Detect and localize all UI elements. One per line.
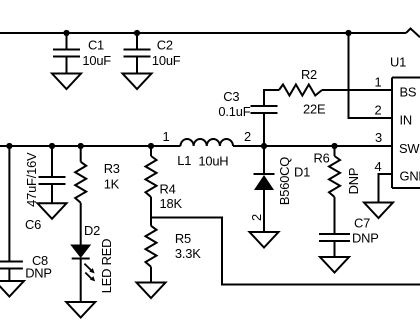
wire R2 to C3 xyxy=(264,90,279,106)
resistor R6 xyxy=(314,146,362,234)
svg-text:2: 2 xyxy=(375,103,382,118)
svg-text:2: 2 xyxy=(244,129,251,144)
svg-text:R3: R3 xyxy=(104,161,120,176)
svg-text:1K: 1K xyxy=(104,177,120,192)
svg-text:4: 4 xyxy=(375,159,382,174)
svg-text:10uF: 10uF xyxy=(82,53,111,68)
wire R3 to D2 xyxy=(80,203,82,245)
svg-text:D1: D1 xyxy=(294,165,310,180)
wire BS pin 1 to R2 xyxy=(322,89,392,91)
svg-text:IN: IN xyxy=(400,113,413,128)
capacitor C2 xyxy=(124,33,181,74)
svg-text:3.3K: 3.3K xyxy=(175,246,201,261)
svg-text:D2: D2 xyxy=(84,223,100,238)
resistor R4 xyxy=(146,146,183,218)
svg-text:1: 1 xyxy=(375,75,382,90)
svg-text:GND: GND xyxy=(400,169,420,184)
svg-text:U1: U1 xyxy=(390,55,406,70)
svg-text:DNP: DNP xyxy=(352,231,379,246)
ground under C8 xyxy=(0,281,24,297)
resistor R2 xyxy=(279,67,326,117)
ground under C6 xyxy=(38,203,67,219)
svg-text:R4: R4 xyxy=(160,181,176,196)
node junction VIN/C1 xyxy=(63,30,69,36)
ground under C2 xyxy=(123,74,152,90)
svg-text:BS: BS xyxy=(400,85,417,100)
svg-text:18K: 18K xyxy=(160,196,183,211)
wire VIN to IN pin 2 xyxy=(349,33,393,118)
capacitor C1 xyxy=(53,33,111,74)
capacitor C8 xyxy=(0,146,52,281)
svg-text:10uH: 10uH xyxy=(198,153,228,168)
svg-text:DNP: DNP xyxy=(25,266,52,281)
capacitor C7 xyxy=(319,216,379,258)
svg-text:L1: L1 xyxy=(177,153,191,168)
svg-text:R5: R5 xyxy=(175,231,191,246)
resistor R3 xyxy=(75,146,120,203)
svg-text:1: 1 xyxy=(163,129,170,144)
ground under C7 xyxy=(320,257,349,273)
wire output rail (left of L1) xyxy=(0,145,181,147)
svg-text:C6: C6 xyxy=(25,217,41,232)
diode D1 xyxy=(249,146,310,232)
svg-text:C1: C1 xyxy=(88,38,104,53)
svg-text:0.1uF: 0.1uF xyxy=(218,104,250,119)
svg-text:C3: C3 xyxy=(223,89,239,104)
node junction rail/C6 xyxy=(49,143,55,149)
node junction SW/R6 xyxy=(331,143,337,149)
ground under R5 xyxy=(137,283,166,299)
node junction rail/R3 xyxy=(78,143,84,149)
svg-text:R6: R6 xyxy=(314,151,330,166)
ground under pin 4 xyxy=(364,203,393,219)
node junction VIN/C2 xyxy=(134,30,140,36)
svg-text:B560CQ: B560CQ xyxy=(277,157,292,205)
wire VIN top rail xyxy=(0,32,406,34)
ground under D2 xyxy=(66,302,95,318)
capacitor C3 xyxy=(218,89,277,146)
svg-text:2: 2 xyxy=(249,214,264,221)
capacitor C6 xyxy=(24,146,66,232)
wire GND pin 4 xyxy=(379,174,393,203)
svg-text:3: 3 xyxy=(375,130,382,145)
resistor R1 (partial, cut off at right edge) xyxy=(406,29,420,38)
node junction rail/R4 xyxy=(148,143,154,149)
svg-text:C7: C7 xyxy=(354,216,370,231)
node junction SW/D1/C3 xyxy=(261,143,267,149)
wire feedback R4/R5 to bottom right xyxy=(151,218,420,285)
resistor R5 xyxy=(146,218,202,283)
inductor L1 xyxy=(163,129,252,168)
svg-text:22E: 22E xyxy=(303,102,326,117)
svg-text:C2: C2 xyxy=(157,38,173,53)
svg-text:LED RED: LED RED xyxy=(99,239,114,293)
ground under D1 xyxy=(250,232,279,248)
svg-text:10uF: 10uF xyxy=(152,53,181,68)
svg-text:SW: SW xyxy=(399,141,420,156)
node junction rail/C8 xyxy=(6,143,12,149)
ground under C1 xyxy=(52,74,81,90)
svg-text:47uF/16V: 47uF/16V xyxy=(24,152,39,207)
wire SW rail (L1 to pin 3) xyxy=(233,145,392,147)
node junction VIN/IN-wire xyxy=(345,30,351,36)
svg-text:DNP: DNP xyxy=(346,168,361,195)
svg-text:R2: R2 xyxy=(301,67,317,82)
op-amp U1 (regulator IC, partially off-page) xyxy=(375,55,420,189)
LED D2 xyxy=(70,223,114,302)
